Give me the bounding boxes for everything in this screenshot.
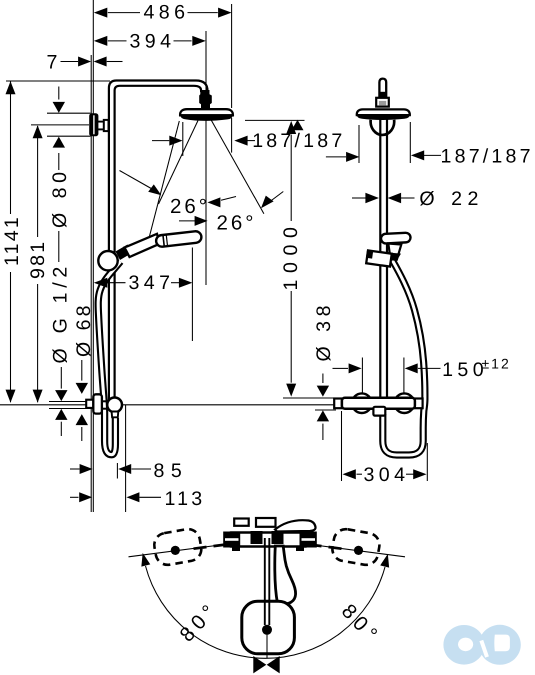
svg-text:26°: 26°	[217, 212, 257, 235]
svg-text:Ø 68: Ø 68	[73, 303, 95, 357]
svg-text:394: 394	[130, 30, 176, 52]
svg-text:±12: ±12	[482, 356, 511, 372]
svg-text:1141: 1141	[1, 215, 23, 266]
svg-text:187/187: 187/187	[252, 130, 345, 152]
svg-text:Ø 22: Ø 22	[419, 188, 483, 210]
svg-text:486: 486	[144, 2, 190, 24]
svg-text:113: 113	[165, 488, 206, 510]
svg-text:304: 304	[364, 464, 410, 486]
svg-text:347: 347	[129, 272, 175, 294]
svg-text:1000: 1000	[280, 221, 302, 291]
svg-text:Ø 38: Ø 38	[313, 301, 335, 361]
svg-text:26°: 26°	[170, 195, 210, 218]
svg-text:85: 85	[154, 460, 189, 482]
svg-text:Ø 80: Ø 80	[49, 168, 71, 228]
svg-text:187/187: 187/187	[441, 145, 534, 167]
svg-text:7: 7	[47, 52, 62, 74]
svg-text:981: 981	[27, 240, 49, 279]
svg-text:Ø G 1/2: Ø G 1/2	[49, 262, 71, 364]
